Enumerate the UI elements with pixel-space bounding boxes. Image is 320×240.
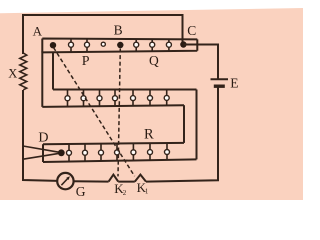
key K1 [135,175,146,182]
svg-text:B: B [114,22,123,37]
terminal A [50,42,56,48]
plug holes band 3 [67,150,170,156]
plug stems band 2 [68,90,167,107]
terminal D [58,149,65,156]
terminal B [117,42,123,48]
galvanometer G [57,173,73,189]
wire left lower [23,90,57,181]
dashed link B to K2 [118,49,120,177]
wire arrow to D upper [23,146,60,152]
svg-text:P: P [82,54,90,69]
plug stems band 3 [69,143,167,161]
wire band1 to band2 inner [52,52,54,90]
wire C to battery [183,45,218,80]
wire band2 to band3 right outer [196,90,198,160]
plug holes strip 1 [69,42,172,47]
resistance box strip A-B-C (arms P,Q) [42,39,197,53]
galvanometer needle [61,178,68,185]
plug stems strip 1 [71,39,169,53]
svg-text:2: 2 [123,189,127,197]
svg-text:E: E [230,75,238,90]
wire band2 to band3 right inner [183,105,185,143]
small hole [101,42,105,46]
wire left upper [22,14,24,54]
wire battery down to bottom [146,86,218,181]
svg-text:R: R [144,127,154,143]
wire outer top (C to X) [23,14,183,16]
svg-text:G: G [76,184,86,199]
svg-text:X: X [8,66,17,80]
wire between keys [118,181,135,183]
svg-text:1: 1 [145,188,149,196]
battery E long plate [211,78,229,80]
band2 top rail [53,89,197,91]
wire key K2 to galvanometer [74,180,109,182]
band3 left edge [42,144,44,162]
band2 bottom rail [42,105,184,107]
band3 bottom rail [43,159,197,162]
terminal C [180,41,186,47]
svg-text:A: A [33,23,43,38]
wire band1 left edge down [41,52,43,107]
wire drop to C [182,14,184,45]
dashed link A to K1 [54,48,135,177]
svg-text:C: C [187,23,196,38]
battery E short plate [214,84,225,87]
resistor X [20,53,27,90]
svg-text:D: D [38,130,48,145]
background panel [0,8,303,200]
key K2 [109,175,119,182]
svg-text:Q: Q [149,53,159,68]
plug holes band 2 [65,95,169,100]
band3 top rail [43,143,184,144]
wire arrow to D lower [23,153,60,159]
